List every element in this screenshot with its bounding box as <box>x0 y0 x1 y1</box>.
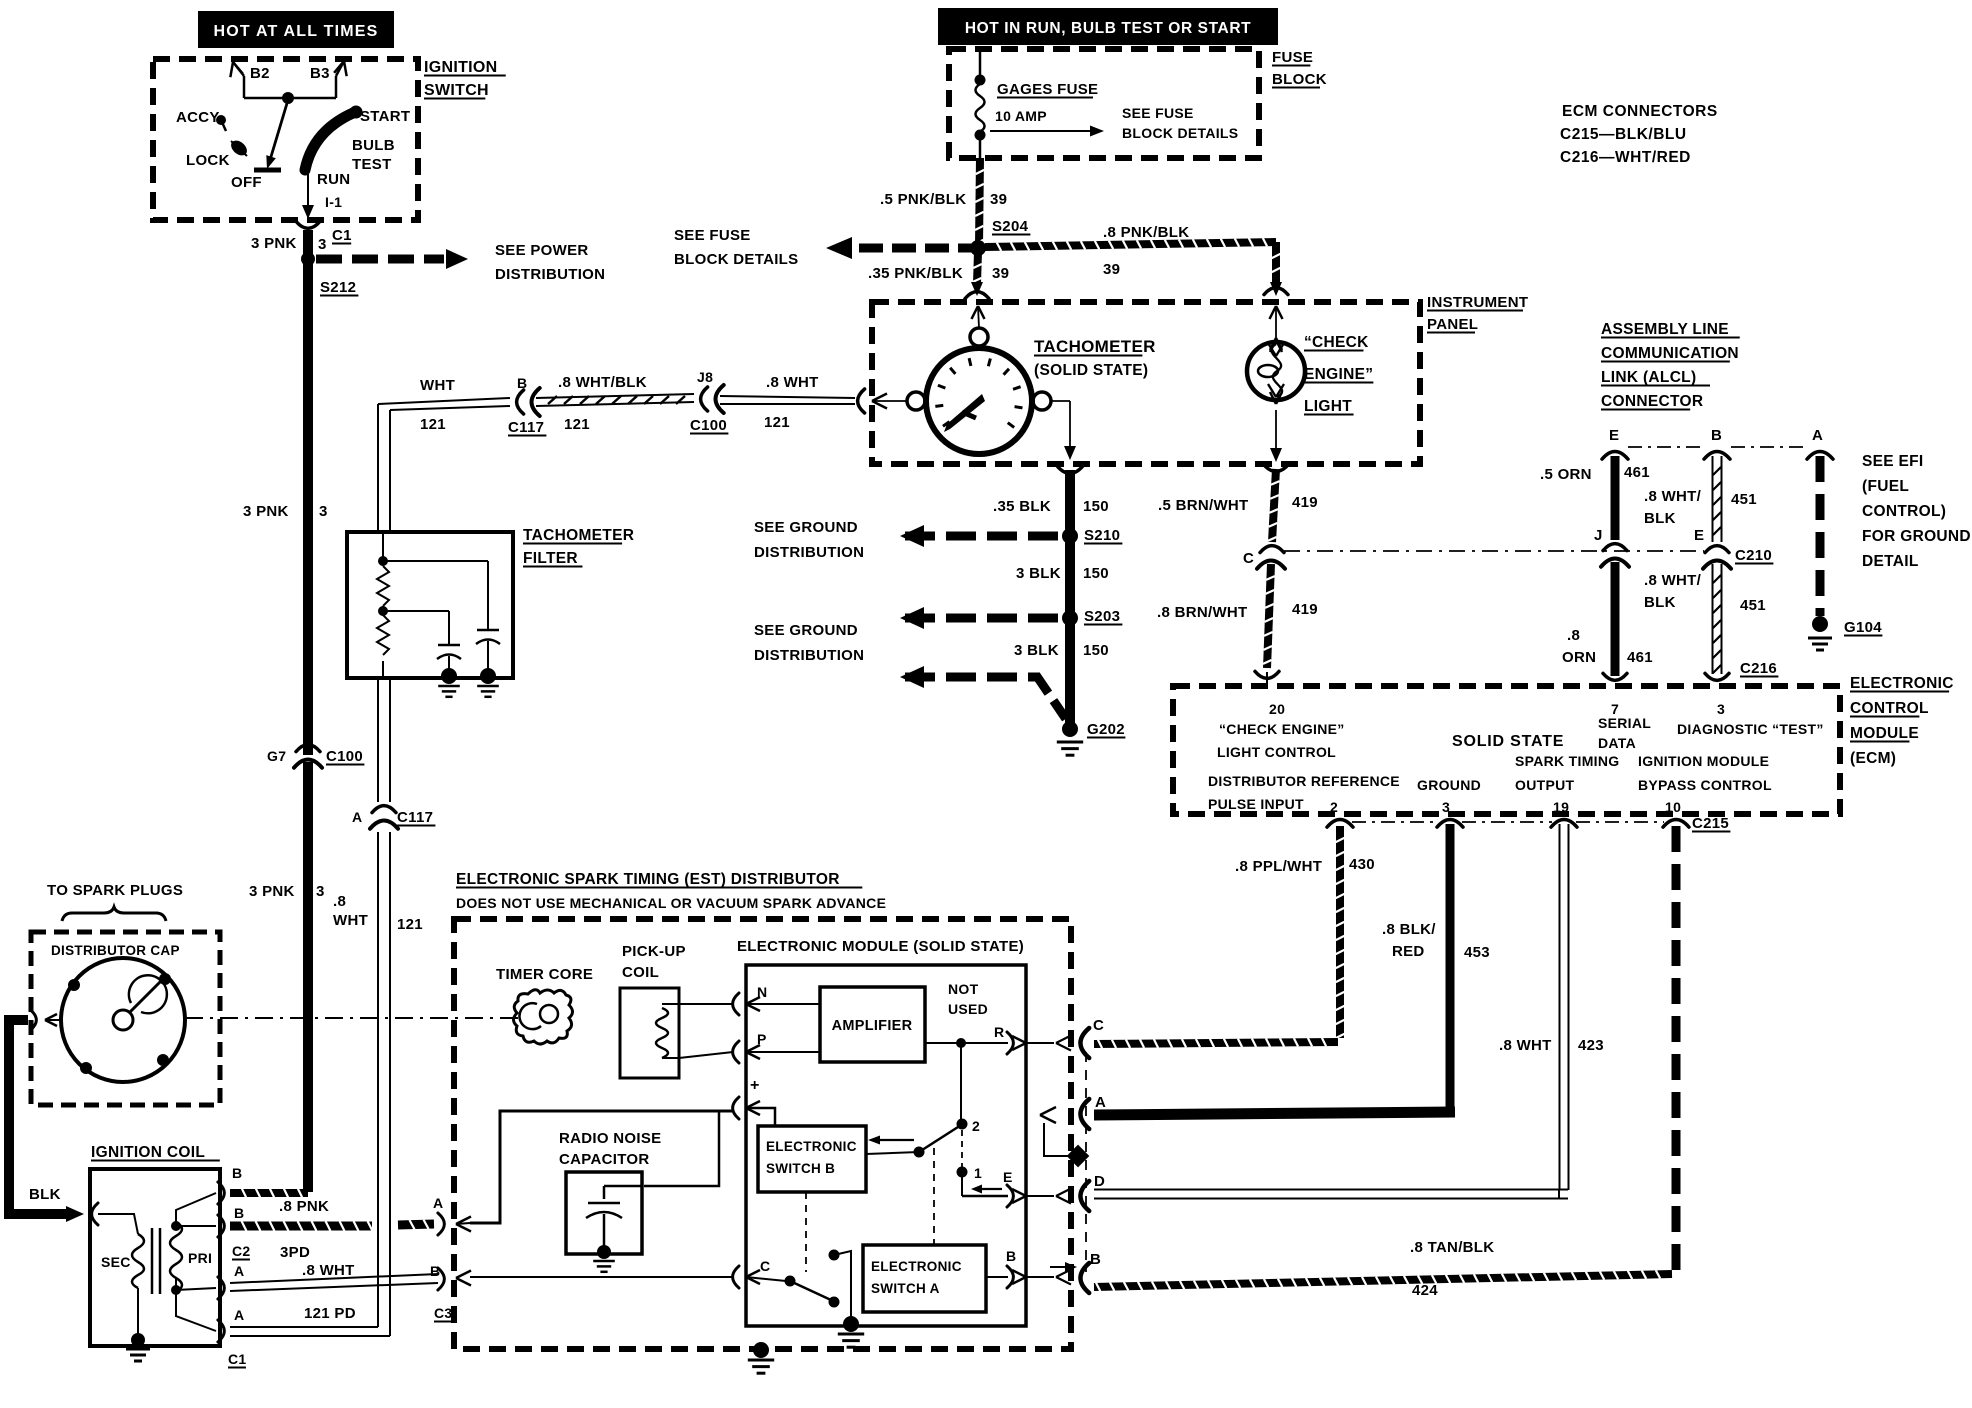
wire BLK distributor to ignition coil <box>9 1020 98 1225</box>
svg-text:PULSE INPUT: PULSE INPUT <box>1208 796 1304 812</box>
svg-text:RED: RED <box>1392 943 1425 960</box>
svg-text:A: A <box>234 1263 244 1279</box>
svg-text:3: 3 <box>316 883 325 900</box>
dashed link contact area to switch A <box>933 1148 935 1245</box>
svg-text:MODULE: MODULE <box>1850 725 1919 742</box>
svg-text:.5 PNK/BLK: .5 PNK/BLK <box>880 191 966 208</box>
instrument panel box <box>872 294 1528 464</box>
svg-text:10 AMP: 10 AMP <box>995 108 1047 124</box>
svg-text:121: 121 <box>564 416 590 433</box>
svg-text:OFF: OFF <box>231 174 262 191</box>
svg-text:.8 WHT: .8 WHT <box>1499 1037 1552 1054</box>
svg-text:IGNITION: IGNITION <box>424 59 498 76</box>
svg-text:FUSE: FUSE <box>1272 49 1313 66</box>
connector into panel above tachometer <box>965 292 989 328</box>
tachometer output wire to bottom edge <box>1051 401 1076 460</box>
svg-text:RUN: RUN <box>317 171 350 188</box>
switch arm B <box>866 1127 958 1158</box>
svg-text:S204: S204 <box>992 218 1029 235</box>
wire .5/.8 BRN/WHT check engine light control <box>1157 464 1318 684</box>
svg-text:GAGES FUSE: GAGES FUSE <box>997 81 1098 98</box>
svg-text:INSTRUMENT: INSTRUMENT <box>1427 294 1528 311</box>
svg-text:3 PNK: 3 PNK <box>249 883 295 900</box>
svg-text:.8 WHT/BLK: .8 WHT/BLK <box>558 374 647 391</box>
wire .5 ORN 461 serial data (pin E) <box>1540 456 1650 540</box>
ignition coil windings <box>98 1193 216 1361</box>
svg-text:SPARK TIMING: SPARK TIMING <box>1515 753 1619 769</box>
svg-text:BLOCK DETAILS: BLOCK DETAILS <box>674 251 798 268</box>
svg-text:451: 451 <box>1740 597 1766 614</box>
svg-text:419: 419 <box>1292 601 1318 618</box>
ECM pin 3 ground <box>1417 777 1481 815</box>
svg-text:3: 3 <box>1717 701 1725 717</box>
svg-text:IGNITION COIL: IGNITION COIL <box>91 1144 205 1161</box>
svg-text:G7: G7 <box>267 748 286 764</box>
dashed link along EST connectors <box>1085 1052 1087 1272</box>
connector C1 below ignition switch <box>251 221 352 253</box>
wire .8 ORN 461 serial data lower <box>1562 562 1653 680</box>
svg-text:ELECTRONIC: ELECTRONIC <box>871 1259 962 1274</box>
connector C117 pin A <box>352 806 435 829</box>
svg-text:39: 39 <box>1103 261 1120 278</box>
svg-text:G104: G104 <box>1844 619 1882 636</box>
electronic switch B box <box>758 1126 866 1192</box>
module pin R output <box>925 1024 1071 1054</box>
svg-text:D: D <box>1094 1173 1105 1190</box>
svg-text:USED: USED <box>948 1001 988 1017</box>
svg-text:E: E <box>1694 527 1704 544</box>
svg-text:IGNITION MODULE: IGNITION MODULE <box>1638 753 1769 769</box>
svg-text:C100: C100 <box>326 748 363 765</box>
svg-text:10: 10 <box>1665 799 1681 815</box>
EST case ground <box>748 1342 774 1373</box>
svg-text:451: 451 <box>1731 491 1757 508</box>
module pin B output <box>986 1248 1071 1288</box>
wire 150 BLK from tachometer down <box>993 466 1109 728</box>
svg-text:SWITCH B: SWITCH B <box>766 1161 835 1176</box>
svg-text:A: A <box>234 1307 244 1323</box>
module pin + <box>733 1077 760 1119</box>
svg-text:C100: C100 <box>690 417 727 434</box>
svg-text:COMMUNICATION: COMMUNICATION <box>1601 345 1739 362</box>
svg-text:430: 430 <box>1349 856 1375 873</box>
svg-text:BLK: BLK <box>1644 510 1676 527</box>
svg-text:.8 WHT: .8 WHT <box>302 1262 355 1279</box>
svg-text:COIL: COIL <box>622 964 659 981</box>
svg-text:150: 150 <box>1083 565 1109 582</box>
svg-text:.8: .8 <box>333 893 346 910</box>
wire .8 WHT 121 to tachometer <box>720 374 855 431</box>
svg-text:2: 2 <box>1330 799 1338 815</box>
wire .5 PNK/BLK from fuse <box>880 158 1030 245</box>
svg-text:A: A <box>1095 1094 1106 1111</box>
hot-at-all-times label <box>198 11 394 48</box>
svg-text:.8 TAN/BLK: .8 TAN/BLK <box>1410 1239 1494 1256</box>
connector into panel above check engine light <box>1264 288 1288 352</box>
svg-text:ELECTRONIC SPARK TIMING (EST): ELECTRONIC SPARK TIMING (EST) DISTRIBUTO… <box>456 871 840 888</box>
svg-text:ORN: ORN <box>1562 649 1596 666</box>
svg-text:B2: B2 <box>250 65 270 82</box>
svg-text:19: 19 <box>1553 799 1569 815</box>
svg-text:.5 ORN: .5 ORN <box>1540 466 1592 483</box>
ground G202 <box>1057 721 1126 755</box>
svg-text:“CHECK: “CHECK <box>1304 334 1369 351</box>
radio noise capacitor <box>559 1130 661 1272</box>
svg-text:ELECTRONIC: ELECTRONIC <box>766 1139 857 1154</box>
svg-text:461: 461 <box>1627 649 1653 666</box>
wire 121 hollow vertical to filter <box>333 680 423 1336</box>
svg-text:ECM CONNECTORS: ECM CONNECTORS <box>1562 103 1718 120</box>
svg-text:C216—WHT/RED: C216—WHT/RED <box>1560 149 1691 166</box>
see ground distribution arrow 1 <box>754 519 1064 561</box>
module pin P <box>679 1031 767 1063</box>
svg-text:.8 PPL/WHT: .8 PPL/WHT <box>1235 858 1322 875</box>
wire 121 PD coil A to tach filter <box>230 1305 390 1336</box>
svg-text:.8 PNK: .8 PNK <box>279 1198 329 1215</box>
ignition coil box <box>90 1144 220 1346</box>
pick-up coil <box>620 943 686 1078</box>
ECM pin 10 ignition module bypass control <box>1638 753 1772 815</box>
svg-text:E: E <box>1003 1169 1013 1185</box>
svg-text:CONNECTOR: CONNECTOR <box>1601 393 1703 410</box>
ECM pin 19 spark timing output <box>1515 753 1619 815</box>
wire .8 TAN/BLK 424 bypass control <box>1094 826 1676 1299</box>
svg-text:.8 BRN/WHT: .8 BRN/WHT <box>1157 604 1248 621</box>
svg-text:3: 3 <box>318 236 327 253</box>
svg-text:C210: C210 <box>1735 547 1772 564</box>
splice S204 <box>970 240 986 256</box>
svg-text:20: 20 <box>1269 701 1285 717</box>
svg-text:3 PNK: 3 PNK <box>243 503 289 520</box>
wire diagnostic test (pin A) dashed to G104 <box>1808 456 1882 650</box>
tachometer left input arrow <box>858 389 907 413</box>
wire WHT 121 filter to tach horizontal <box>378 377 510 533</box>
contact 1 and wire to pin E <box>957 1130 1072 1207</box>
to spark plugs label <box>47 882 183 921</box>
svg-text:PICK-UP: PICK-UP <box>622 943 686 960</box>
wire .8 WHT 423 spark timing output <box>1094 824 1604 1199</box>
svg-text:+: + <box>750 1077 760 1094</box>
svg-text:SEC: SEC <box>101 1254 131 1270</box>
svg-text:A: A <box>433 1195 443 1211</box>
ignition switch contacts <box>176 61 410 219</box>
svg-text:1: 1 <box>974 1165 982 1181</box>
svg-text:B: B <box>430 1263 440 1279</box>
svg-text:N: N <box>757 984 767 1000</box>
check engine light lower wire to panel edge <box>1270 410 1282 462</box>
ECM pin 7 serial data <box>1598 701 1651 751</box>
svg-text:150: 150 <box>1083 642 1109 659</box>
svg-text:C1: C1 <box>332 227 352 244</box>
not used label <box>948 981 988 1017</box>
svg-text:WHT: WHT <box>420 377 455 394</box>
svg-text:DETAIL: DETAIL <box>1862 553 1919 570</box>
svg-text:AMPLIFIER: AMPLIFIER <box>832 1018 913 1034</box>
svg-text:150: 150 <box>1083 498 1109 515</box>
svg-text:BYPASS CONTROL: BYPASS CONTROL <box>1638 777 1772 793</box>
svg-text:BLOCK DETAILS: BLOCK DETAILS <box>1122 125 1238 141</box>
svg-text:3PD: 3PD <box>280 1244 310 1261</box>
svg-text:BLK: BLK <box>1644 594 1676 611</box>
module pin C and switch A arm <box>733 1250 851 1322</box>
hot-in-run label <box>938 8 1278 45</box>
splice S210 <box>1062 527 1122 544</box>
svg-text:ENGINE”: ENGINE” <box>1304 366 1373 383</box>
svg-text:3 PNK: 3 PNK <box>251 235 297 252</box>
svg-text:CAPACITOR: CAPACITOR <box>559 1151 649 1168</box>
svg-text:B3: B3 <box>310 65 330 82</box>
svg-text:TEST: TEST <box>352 156 392 173</box>
svg-text:TACHOMETER: TACHOMETER <box>523 527 634 544</box>
wire .8 PPL/WHT 430 distributor reference <box>1094 826 1375 1048</box>
EST right edge connector D <box>1080 1173 1105 1211</box>
svg-text:“CHECK ENGINE”: “CHECK ENGINE” <box>1219 721 1345 737</box>
svg-text:TIMER CORE: TIMER CORE <box>496 966 593 983</box>
svg-text:ELECTRONIC MODULE (SOLID STATE: ELECTRONIC MODULE (SOLID STATE) <box>737 938 1024 955</box>
junction to electronic switch contact 2 <box>956 1038 980 1134</box>
see fuse block details arrow <box>674 227 972 268</box>
wire .8 WHT from coil to module pin C <box>470 1276 733 1278</box>
module pin N <box>679 984 767 1015</box>
module ground <box>838 1316 864 1347</box>
svg-text:I-1: I-1 <box>325 194 342 210</box>
distributor cap box <box>31 932 220 1105</box>
svg-text:TACHOMETER: TACHOMETER <box>1034 337 1156 356</box>
svg-text:3 BLK: 3 BLK <box>1014 642 1059 659</box>
svg-text:C215: C215 <box>1692 815 1729 832</box>
svg-text:SERIAL: SERIAL <box>1598 715 1651 731</box>
svg-text:BLK: BLK <box>29 1186 61 1203</box>
check engine light bulb <box>1247 334 1373 415</box>
svg-text:424: 424 <box>1412 1282 1438 1299</box>
svg-text:LIGHT CONTROL: LIGHT CONTROL <box>1217 744 1336 760</box>
distributor connector B (C3) <box>430 1263 471 1322</box>
svg-text:DIAGNOSTIC “TEST”: DIAGNOSTIC “TEST” <box>1677 721 1824 737</box>
connector C210 <box>1694 527 1773 569</box>
svg-text:C215—BLK/BLU: C215—BLK/BLU <box>1560 126 1687 143</box>
EST right edge connector C <box>1080 1017 1104 1058</box>
svg-text:B: B <box>517 375 527 391</box>
svg-text:S212: S212 <box>320 279 356 296</box>
svg-text:453: 453 <box>1464 944 1490 961</box>
svg-text:SEE FUSE: SEE FUSE <box>1122 105 1194 121</box>
dash line distributor cap to timer core <box>185 1017 525 1019</box>
svg-text:SEE EFI: SEE EFI <box>1862 453 1924 470</box>
distributor cap rotor <box>31 958 186 1082</box>
svg-text:.5 BRN/WHT: .5 BRN/WHT <box>1158 497 1249 514</box>
dashed link switch B to switch arm <box>805 1192 807 1272</box>
svg-text:DISTRIBUTION: DISTRIBUTION <box>495 266 605 283</box>
svg-text:E: E <box>1609 427 1619 444</box>
dashed connector line C to ALCL <box>1284 550 1704 552</box>
svg-text:BULB: BULB <box>352 137 395 154</box>
svg-text:TO SPARK PLUGS: TO SPARK PLUGS <box>47 882 183 899</box>
ECM bottom connector row C215 <box>1327 815 1730 832</box>
connector J on serial data wire <box>1594 527 1629 567</box>
wire from distributor connector A to + and capacitor <box>470 1108 775 1223</box>
svg-text:C: C <box>1093 1017 1104 1034</box>
svg-text:RADIO NOISE: RADIO NOISE <box>559 1130 661 1147</box>
wire .8 WHT coil A to distributor B <box>230 1262 438 1291</box>
svg-text:C117: C117 <box>397 809 433 826</box>
svg-text:(FUEL: (FUEL <box>1862 478 1909 495</box>
svg-text:SEE GROUND: SEE GROUND <box>754 519 858 536</box>
svg-text:.8: .8 <box>1567 627 1580 644</box>
ECM connectors note <box>1560 103 1718 166</box>
distributor connector A (C3) <box>433 1195 471 1235</box>
svg-text:B: B <box>1090 1251 1101 1268</box>
svg-text:423: 423 <box>1578 1037 1604 1054</box>
svg-text:ELECTRONIC: ELECTRONIC <box>1850 675 1954 692</box>
svg-text:DISTRIBUTOR REFERENCE: DISTRIBUTOR REFERENCE <box>1208 773 1400 789</box>
svg-text:SEE POWER: SEE POWER <box>495 242 589 259</box>
see ground distribution arrow 2 <box>754 607 1064 664</box>
svg-text:.35 PNK/BLK: .35 PNK/BLK <box>868 265 963 282</box>
electronic module box <box>737 938 1026 1326</box>
svg-text:J: J <box>1594 527 1603 544</box>
svg-text:LINK (ALCL): LINK (ALCL) <box>1601 369 1696 386</box>
amplifier <box>746 987 925 1062</box>
svg-text:ACCY: ACCY <box>176 109 220 126</box>
svg-text:B: B <box>232 1165 242 1181</box>
ECM pin 3 diagnostic test <box>1677 701 1824 737</box>
timer core <box>496 966 593 1044</box>
svg-text:S210: S210 <box>1084 527 1120 544</box>
svg-text:B: B <box>1006 1248 1016 1264</box>
EST right edge connector A <box>1040 1094 1106 1129</box>
svg-text:SEE GROUND: SEE GROUND <box>754 622 858 639</box>
wire .8 PNK/BLK to check engine light <box>985 224 1282 296</box>
svg-text:DISTRIBUTOR CAP: DISTRIBUTOR CAP <box>51 943 180 958</box>
svg-text:B: B <box>234 1205 244 1221</box>
svg-text:419: 419 <box>1292 494 1318 511</box>
wire 3 PNK vertical <box>303 230 313 755</box>
wire .8 PNK coil B to 3PNK <box>230 1189 329 1215</box>
svg-text:DATA: DATA <box>1598 735 1636 751</box>
svg-text:C216: C216 <box>1740 660 1777 677</box>
wire .8 WHT/BLK 451 (pin B) upper <box>1644 456 1757 542</box>
ignition coil pins B B A A <box>218 1165 251 1368</box>
svg-text:LIGHT: LIGHT <box>1304 398 1352 415</box>
EST right edge connector B <box>1050 1251 1101 1293</box>
ECM pin 2 distributor reference pulse input <box>1208 773 1400 815</box>
svg-text:3 BLK: 3 BLK <box>1016 565 1061 582</box>
splice S212 / see power distribution arrow <box>301 242 605 296</box>
svg-text:SWITCH: SWITCH <box>424 82 489 99</box>
svg-text:39: 39 <box>992 265 1009 282</box>
svg-text:461: 461 <box>1624 464 1650 481</box>
wire .8 WHT/BLK 121 between C117 and C100 <box>536 374 694 433</box>
svg-text:P: P <box>757 1031 767 1047</box>
svg-text:BLOCK: BLOCK <box>1272 71 1327 88</box>
svg-text:.8 PNK/BLK: .8 PNK/BLK <box>1103 224 1189 241</box>
tachometer gauge <box>907 328 1156 454</box>
svg-text:121: 121 <box>420 416 446 433</box>
svg-text:C: C <box>1243 550 1254 567</box>
wire 3 PNK lower vertical <box>249 762 325 1192</box>
connector C100 / J8 <box>690 369 728 434</box>
svg-text:121: 121 <box>764 414 790 431</box>
svg-text:START: START <box>360 108 410 125</box>
svg-text:SWITCH A: SWITCH A <box>871 1281 940 1296</box>
svg-text:DISTRIBUTION: DISTRIBUTION <box>754 544 864 561</box>
svg-text:S203: S203 <box>1084 608 1120 625</box>
svg-text:SEE FUSE: SEE FUSE <box>674 227 751 244</box>
wire .8 WHT/BLK 451 lower to C216 <box>1644 564 1778 680</box>
svg-text:J8: J8 <box>697 369 713 385</box>
svg-text:3: 3 <box>319 503 328 520</box>
svg-text:HOT IN RUN, BULB TEST OR STAR: HOT IN RUN, BULB TEST OR START <box>965 20 1251 37</box>
see ground distribution arrow 3 (diagonal) <box>900 666 1068 722</box>
svg-text:PANEL: PANEL <box>1427 316 1478 333</box>
svg-text:.35 BLK: .35 BLK <box>993 498 1051 515</box>
tachometer filter box <box>347 527 634 678</box>
junction on EST border (ground shield) <box>1044 1123 1089 1167</box>
svg-text:CONTROL): CONTROL) <box>1862 503 1946 520</box>
wire 3PD coil B to distributor pin A <box>230 1220 434 1261</box>
svg-text:B: B <box>1711 427 1722 444</box>
svg-text:3: 3 <box>1442 799 1450 815</box>
svg-text:SOLID STATE: SOLID STATE <box>1452 733 1564 750</box>
ignition switch box <box>153 59 506 220</box>
svg-text:121: 121 <box>397 916 423 933</box>
svg-text:C117: C117 <box>508 419 544 436</box>
svg-text:G202: G202 <box>1087 721 1125 738</box>
svg-text:A: A <box>352 809 362 825</box>
wire .35 PNK/BLK to tachometer <box>868 252 1009 296</box>
svg-text:C3: C3 <box>434 1305 453 1321</box>
connector C100 on 3 PNK wire <box>243 503 364 768</box>
tachometer filter internals <box>377 532 500 697</box>
svg-text:C2: C2 <box>232 1243 251 1259</box>
svg-text:FOR GROUND: FOR GROUND <box>1862 528 1971 545</box>
svg-text:.8 BLK/: .8 BLK/ <box>1382 921 1436 938</box>
see EFI note <box>1862 453 1971 570</box>
svg-text:DISTRIBUTION: DISTRIBUTION <box>754 647 864 664</box>
svg-text:DOES NOT USE MECHANICAL OR VAC: DOES NOT USE MECHANICAL OR VACUUM SPARK … <box>456 895 886 911</box>
gages fuse 10A <box>975 51 1239 158</box>
svg-text:A: A <box>1812 427 1823 444</box>
svg-text:HOT AT ALL TIMES: HOT AT ALL TIMES <box>214 23 379 40</box>
svg-text:C: C <box>760 1258 770 1274</box>
electronic switch A box <box>863 1245 986 1312</box>
svg-text:NOT: NOT <box>948 981 979 997</box>
connector C117 pin B <box>508 375 546 436</box>
svg-text:(ECM): (ECM) <box>1850 750 1896 767</box>
svg-text:(SOLID STATE): (SOLID STATE) <box>1034 362 1148 379</box>
fuse block box <box>949 49 1327 158</box>
svg-text:R: R <box>994 1024 1004 1040</box>
svg-text:39: 39 <box>990 191 1007 208</box>
svg-text:C1: C1 <box>228 1351 247 1367</box>
ALCL connector label <box>1601 321 1740 410</box>
splice S203 <box>1062 608 1122 626</box>
svg-text:FILTER: FILTER <box>523 550 578 567</box>
electronic control module box <box>1173 675 1954 814</box>
svg-text:.8 WHT/: .8 WHT/ <box>1644 572 1702 589</box>
svg-text:121 PD: 121 PD <box>304 1305 356 1322</box>
svg-text:.8 WHT/: .8 WHT/ <box>1644 488 1702 505</box>
ALCL pins E B A header <box>1602 427 1833 459</box>
svg-text:PRI: PRI <box>188 1250 212 1266</box>
svg-text:LOCK: LOCK <box>186 152 230 169</box>
svg-text:CONTROL: CONTROL <box>1850 700 1929 717</box>
svg-text:2: 2 <box>972 1118 980 1134</box>
svg-text:.8 WHT: .8 WHT <box>766 374 819 391</box>
svg-text:GROUND: GROUND <box>1417 777 1481 793</box>
ECM pin 20 check engine light control <box>1217 701 1345 760</box>
svg-text:OUTPUT: OUTPUT <box>1515 777 1575 793</box>
